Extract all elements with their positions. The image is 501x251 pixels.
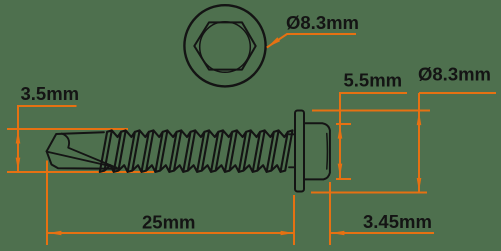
svg-text:5.5mm: 5.5mm <box>344 69 403 90</box>
svg-text:Ø8.3mm: Ø8.3mm <box>286 12 359 33</box>
svg-text:3.45mm: 3.45mm <box>363 211 432 232</box>
svg-text:3.5mm: 3.5mm <box>21 83 80 104</box>
svg-text:25mm: 25mm <box>142 212 195 233</box>
svg-text:Ø8.3mm: Ø8.3mm <box>418 64 491 85</box>
